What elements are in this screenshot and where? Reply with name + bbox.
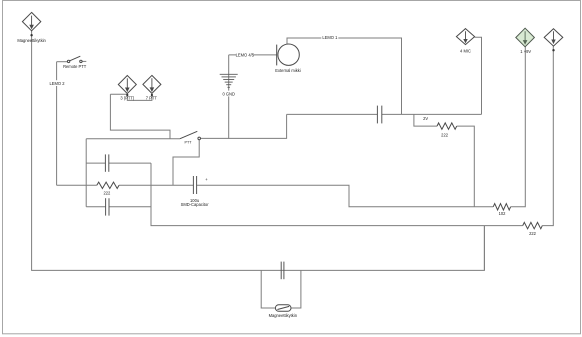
svg-text:222: 222	[529, 231, 537, 236]
svg-text:PTT: PTT	[185, 141, 193, 145]
svg-text:LEMO 1: LEMO 1	[322, 35, 338, 40]
svg-text:Magneettikytkin: Magneettikytkin	[269, 313, 298, 318]
svg-text:4 MIC: 4 MIC	[460, 49, 471, 54]
svg-text:0 GND: 0 GND	[222, 91, 235, 96]
svg-text:222: 222	[441, 133, 449, 138]
svg-text:102: 102	[499, 211, 507, 216]
svg-text:7 PTT: 7 PTT	[146, 96, 158, 101]
svg-text:Magneettikytkin: Magneettikytkin	[17, 38, 46, 43]
svg-text:1 +9V: 1 +9V	[520, 49, 531, 54]
svg-text:External mikki: External mikki	[275, 68, 301, 73]
svg-text:3 (PTT): 3 (PTT)	[120, 96, 135, 101]
svg-text:222: 222	[103, 190, 111, 195]
svg-text:LEMO 4/5: LEMO 4/5	[236, 53, 255, 58]
svg-text:2V: 2V	[423, 116, 428, 121]
svg-text:SMD-Capacitor: SMD-Capacitor	[181, 202, 210, 207]
svg-text:Remote PTT: Remote PTT	[63, 64, 87, 69]
svg-text:LEMO 2: LEMO 2	[49, 81, 65, 86]
